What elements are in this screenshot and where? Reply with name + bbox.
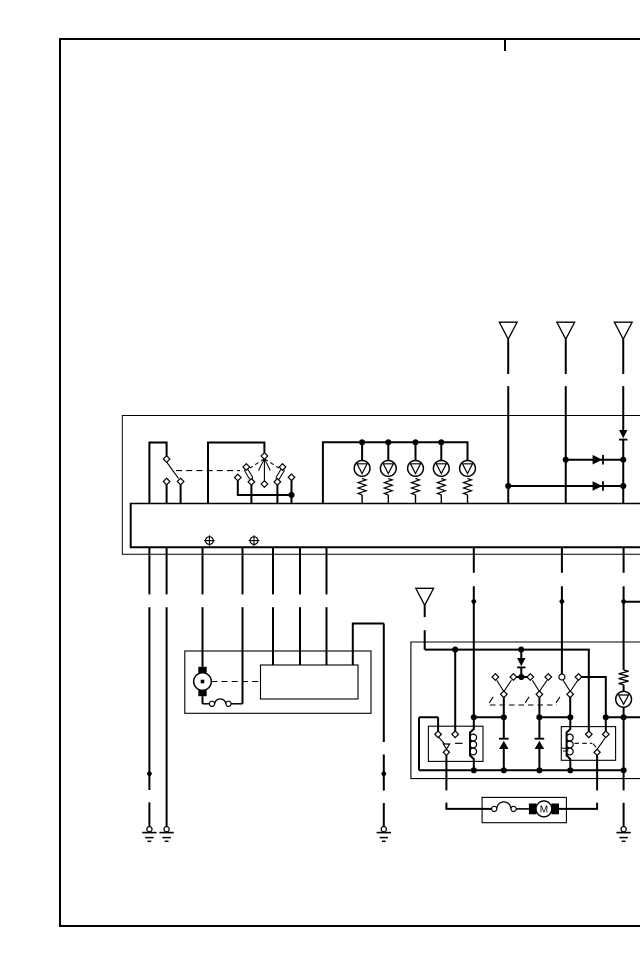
svg-text:M: M <box>540 805 548 816</box>
